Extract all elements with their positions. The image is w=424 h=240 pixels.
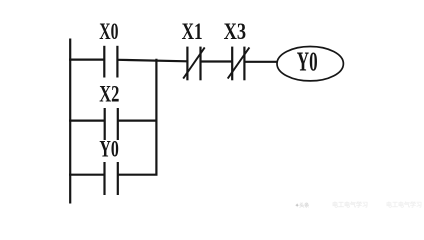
coil Y0 (output)	[277, 47, 343, 81]
contact X3 (NC)	[228, 47, 250, 81]
svg-text:Y0: Y0	[99, 137, 118, 162]
svg-text:电工电气学习: 电工电气学习	[332, 201, 368, 209]
junction vertical connector at node A	[155, 59, 157, 176]
svg-text:X0: X0	[99, 19, 118, 44]
wire rung2 rail to X2	[69, 119, 105, 121]
svg-text:X1: X1	[182, 19, 203, 44]
svg-text:X2: X2	[99, 81, 119, 106]
wire rung3 rail to Y0 contact	[69, 174, 104, 176]
wire rung1 X3 to coil	[245, 61, 278, 63]
wire rung1 rail to X0	[69, 58, 104, 60]
contact X1 (NC)	[183, 47, 205, 81]
svg-text:✦头条: ✦头条	[295, 202, 309, 209]
contact X2 (NO)	[105, 108, 118, 140]
svg-text:Y0: Y0	[297, 47, 318, 77]
svg-text:X3: X3	[224, 19, 247, 44]
svg-text:电工电气学习: 电工电气学习	[386, 201, 422, 209]
wire rung3 Y0 contact to connector	[118, 174, 157, 176]
wire rung1 X0 to X1	[118, 60, 187, 62]
wire rung1 X1 to X3	[201, 60, 232, 62]
contact Y0 (NO, seal-in)	[105, 162, 118, 195]
watermark	[295, 201, 422, 209]
contact X0 (NO)	[104, 46, 117, 78]
wire rung2 X2 to connector	[118, 119, 157, 121]
left power rail	[69, 39, 71, 204]
